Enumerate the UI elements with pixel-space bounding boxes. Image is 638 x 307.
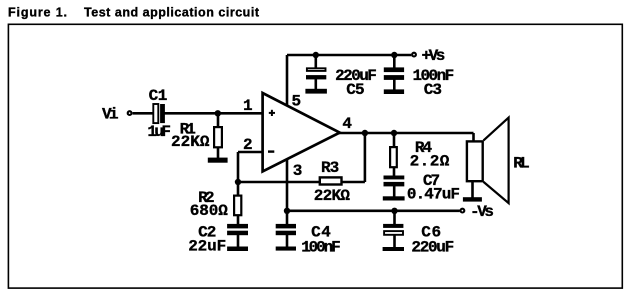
capacitor C6 (polarized) plates bbox=[383, 224, 403, 235]
ground bar under C2 bbox=[227, 247, 248, 252]
capacitor C5 (polarized) plates bbox=[306, 68, 326, 79]
wire output riser bbox=[364, 133, 367, 182]
svg-text:C5: C5 bbox=[346, 81, 364, 99]
capacitor C7 plates bbox=[384, 176, 405, 187]
svg-text:0.47uF: 0.47uF bbox=[407, 185, 460, 203]
wire pin 5 to rail bbox=[286, 55, 289, 110]
wire R4 top stub bbox=[393, 133, 396, 147]
wire R3 to output riser bbox=[342, 181, 365, 184]
wire C7 to ground stub bbox=[393, 186, 396, 197]
svg-text:Figure 1.: Figure 1. bbox=[8, 5, 67, 19]
wire C3 to ground stub bbox=[393, 79, 396, 91]
ground bar under C3 bbox=[384, 89, 404, 94]
capacitor C2 plates bbox=[227, 224, 248, 235]
svg-text:+Vs: +Vs bbox=[422, 47, 446, 65]
junction feedback node bbox=[235, 179, 241, 185]
junction C6 on -Vs rail bbox=[391, 208, 397, 214]
svg-text:220uF: 220uF bbox=[411, 238, 454, 256]
wire C4 top stub bbox=[286, 211, 289, 225]
junction C5 on +Vs rail bbox=[313, 52, 319, 58]
junction output/feedback bbox=[362, 130, 368, 136]
wire output pin 4 to speaker bbox=[339, 132, 474, 135]
resistor R1 body bbox=[214, 127, 222, 147]
ground bar under R1 bbox=[208, 158, 228, 163]
junction output/R4 bbox=[391, 130, 397, 136]
terminal +Vs bbox=[412, 53, 416, 57]
junction pin3/C4 on -Vs rail bbox=[284, 208, 290, 214]
svg-text:RL: RL bbox=[513, 154, 529, 172]
ground bar under C4 bbox=[276, 247, 296, 251]
svg-text:1uF: 1uF bbox=[147, 123, 171, 141]
wire C2 to ground stub bbox=[237, 234, 240, 247]
ground bar under C5 bbox=[305, 89, 327, 94]
wire feedback node to R3 bbox=[238, 181, 320, 184]
ground bar under speaker bbox=[463, 197, 482, 201]
svg-text:4: 4 bbox=[342, 115, 352, 133]
op-amp plus input mark bbox=[269, 110, 275, 116]
svg-text:R3: R3 bbox=[321, 159, 339, 177]
svg-text:3: 3 bbox=[293, 162, 303, 180]
svg-text:2.2Ω: 2.2Ω bbox=[410, 152, 450, 170]
wire Vi to C1 bbox=[133, 112, 154, 115]
ground bar under C6 bbox=[383, 247, 404, 251]
figure title bbox=[8, 5, 260, 19]
svg-text:22KΩ: 22KΩ bbox=[314, 187, 351, 205]
capacitor C4 plates bbox=[276, 224, 296, 235]
wire C6 to ground stub bbox=[393, 235, 396, 248]
wire R2 to C2 stub bbox=[237, 215, 240, 225]
svg-text:Test and application circuit: Test and application circuit bbox=[84, 5, 260, 19]
wire C1 to pin 1 bbox=[165, 112, 263, 115]
wire pin 2 horizontal bbox=[238, 151, 262, 154]
ground bar under C7 bbox=[383, 196, 405, 200]
svg-text:-Vs: -Vs bbox=[470, 203, 494, 221]
speaker RL driver bbox=[467, 141, 483, 181]
resistor R2 body bbox=[234, 196, 241, 216]
wire pin 3 down to -Vs rail bbox=[286, 155, 289, 211]
resistor R4 body bbox=[390, 147, 397, 167]
capacitor C1 plates bbox=[153, 104, 165, 123]
speaker RL cone bbox=[484, 118, 509, 204]
wire C4 to ground stub bbox=[286, 234, 289, 247]
op-amp U1 body bbox=[263, 93, 340, 171]
wire C5 top stub bbox=[314, 55, 317, 68]
wire speaker top stub bbox=[472, 133, 475, 141]
junction R1/pin1 node bbox=[215, 110, 221, 116]
svg-text:2: 2 bbox=[243, 136, 253, 154]
svg-text:100nF: 100nF bbox=[301, 238, 341, 256]
wire C5 to ground stub bbox=[314, 78, 317, 90]
svg-text:C1: C1 bbox=[149, 87, 168, 105]
svg-text:22KΩ: 22KΩ bbox=[171, 133, 210, 151]
capacitor C3 plates bbox=[384, 67, 404, 80]
svg-text:5: 5 bbox=[292, 92, 302, 110]
wire C3 top stub bbox=[393, 55, 396, 68]
wire R4 to C7 stub bbox=[393, 167, 396, 176]
wire +Vs top rail bbox=[287, 54, 411, 57]
wire R1 top stub bbox=[217, 113, 220, 127]
wire C6 top stub bbox=[393, 211, 396, 225]
wire speaker ground stub bbox=[471, 182, 474, 199]
wire pin 2 down to feedback node bbox=[237, 152, 240, 182]
svg-text:C3: C3 bbox=[424, 81, 442, 99]
svg-text:1: 1 bbox=[243, 97, 253, 115]
terminal Vi bbox=[128, 111, 132, 115]
wire R2 top stub bbox=[237, 182, 240, 196]
terminal -Vs bbox=[461, 209, 465, 213]
resistor R3 body bbox=[320, 177, 342, 184]
wire -Vs rail bbox=[287, 210, 460, 213]
svg-text:Vi: Vi bbox=[102, 105, 119, 123]
wire R1 bottom stub bbox=[217, 147, 220, 158]
op-amp minus input mark bbox=[268, 150, 274, 152]
svg-text:22uF: 22uF bbox=[188, 238, 226, 256]
junction C3 on +Vs rail bbox=[391, 52, 397, 58]
svg-text:680Ω: 680Ω bbox=[190, 202, 228, 220]
